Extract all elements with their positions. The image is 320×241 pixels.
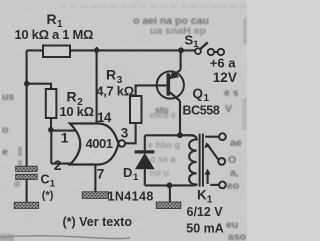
wire R2 top lead [27, 84, 51, 89]
wire top rail [27, 49, 196, 51]
ghost bleed-through layer [2, 7, 247, 241]
wire D1 leads [144, 135, 146, 185]
node pin1 junction [48, 127, 54, 133]
wire emitter [180, 50, 182, 69]
ground relay [156, 202, 181, 209]
scan smudges [0, 18, 247, 241]
capacitor C1 plates [16, 166, 38, 202]
wire pin 1 [51, 130, 76, 132]
wire relay bottom [145, 184, 194, 186]
wire pin 2 [51, 163, 71, 165]
node emitter junction [178, 47, 184, 53]
wire pin 3 to R3 [125, 123, 136, 143]
wire collector [179, 101, 181, 135]
wire R3 to base [136, 85, 169, 96]
top dashed rule [60, 6, 247, 8]
relay K1 coil [180, 134, 203, 187]
diode D1 [135, 152, 155, 169]
transistor Q1 [157, 70, 184, 101]
relay contacts K1 [204, 133, 225, 188]
resistor R2 [46, 89, 57, 118]
wire relay top [145, 134, 194, 136]
wire ground stem K1 [169, 185, 171, 201]
grain overlay [0, 0, 247, 241]
ground pin 7 [82, 192, 108, 199]
wire pin 14 [96, 50, 98, 123]
node relay ground junction [167, 182, 173, 188]
wire left node line [26, 50, 28, 166]
resistor R1 [43, 46, 70, 58]
switch S1 [195, 42, 224, 55]
node collector junction [177, 132, 183, 138]
resistor R3 [130, 96, 142, 123]
relay core [200, 134, 203, 187]
wire R2 bottom lead [50, 118, 52, 130]
wire input tie [50, 130, 52, 164]
wire pin 7 [94, 164, 96, 192]
gate U1 4001 [70, 124, 125, 165]
ground below C1 [14, 202, 39, 208]
paper background [0, 0, 247, 241]
node R2 top junction [24, 81, 30, 87]
node pin14 junction [93, 47, 100, 54]
